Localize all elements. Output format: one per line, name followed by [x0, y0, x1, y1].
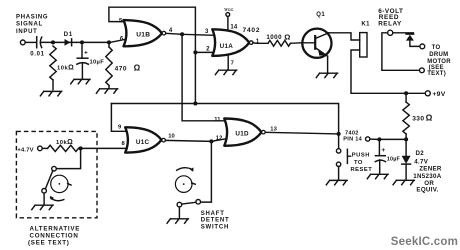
svg-text:330: 330 [412, 115, 424, 122]
capacitor C2 10uF [77, 42, 104, 78]
junction: C1/R1 node [51, 40, 55, 44]
svg-text:ZENER: ZENER [419, 166, 442, 173]
svg-text:SIGNAL: SIGNAL [16, 22, 43, 28]
svg-text:CONNECTION: CONNECTION [30, 233, 79, 240]
terminal +4.7V [17, 146, 42, 154]
junction: C3 node [377, 137, 381, 141]
junction: +9V / R4 node [404, 91, 408, 95]
pushbutton S1 (push to reset) [336, 149, 372, 173]
svg-text:13: 13 [270, 126, 277, 132]
wire: U1D pin12 node to shaft switch [201, 141, 212, 202]
ground under shaft switch [167, 219, 188, 223]
svg-text:Q1: Q1 [316, 12, 325, 18]
shaft switch contact (right) [196, 200, 201, 205]
NOR gate U1B [124, 20, 166, 46]
junction: U1B output node [180, 32, 184, 36]
resistor R4 330 [403, 93, 433, 139]
label: phasing signal input [16, 14, 48, 35]
svg-text:PUSH: PUSH [352, 153, 370, 159]
svg-text:10µF: 10µF [90, 60, 105, 66]
svg-text:1000: 1000 [266, 34, 282, 41]
wire: U1A out to R3 [253, 42, 268, 45]
reed switch contact [388, 30, 393, 35]
wire: U1B out to U1A pin 3 [166, 33, 214, 35]
terminal +9V [425, 91, 445, 98]
svg-text:3: 3 [205, 29, 209, 35]
junction: reset node [337, 132, 341, 136]
junction: R2 node [107, 40, 111, 44]
svg-text:RELAY: RELAY [378, 20, 402, 27]
wire: U1C pin 9 [111, 104, 127, 132]
svg-text:D2: D2 [416, 150, 425, 157]
NOR gate U1D [224, 119, 265, 146]
relay K1 coil [360, 21, 370, 57]
svg-text:+9V: +9V [432, 91, 445, 98]
svg-text:Ω: Ω [134, 64, 141, 73]
wire: U1B out down to U1D pin 11 [182, 34, 226, 121]
svg-text:10kΩ: 10kΩ [56, 139, 73, 146]
resistor R1 10k [50, 46, 74, 90]
NOR gate U1A [212, 29, 253, 56]
svg-text:SWITCH: SWITCH [201, 224, 229, 230]
alt switch contact (upper) [52, 166, 57, 171]
ground under D2 [393, 180, 414, 184]
wire: R3 to Q1 base [291, 42, 316, 45]
junction: D1/C2 node [80, 40, 84, 44]
wire: alt node to switch [56, 148, 80, 168]
wire: contact to D3 [393, 32, 414, 34]
svg-text:9: 9 [118, 125, 122, 131]
svg-text:14: 14 [230, 24, 238, 30]
svg-text:TEXT): TEXT) [427, 71, 446, 77]
svg-text:DETENT: DETENT [201, 218, 230, 224]
diode D3 [406, 34, 420, 46]
wire: reset rail [111, 104, 338, 134]
wire: J1 to C1 [25, 41, 36, 43]
wire: pin14 terminal to D2 node [370, 138, 406, 140]
svg-text:K1: K1 [361, 21, 370, 27]
svg-text:10kΩ: 10kΩ [57, 64, 74, 71]
ground under C3 [367, 174, 388, 178]
label: shaft detent switch [201, 211, 230, 231]
alt shaft rotor [50, 175, 71, 201]
svg-text:10: 10 [168, 134, 174, 140]
svg-text:DRUM: DRUM [429, 52, 448, 58]
NOR gate U1C [125, 127, 165, 152]
diode D1 [64, 32, 73, 46]
terminal: to drum motor (lower) [420, 68, 425, 73]
svg-text:7402: 7402 [243, 27, 261, 34]
ground under S1 [326, 180, 347, 184]
resistor R2 470 [106, 42, 141, 88]
shaft switch arm [182, 202, 196, 204]
junction: reset rail tap [193, 101, 197, 105]
resistor R5 10k (alt) [42, 139, 78, 151]
svg-text:10µF: 10µF [387, 157, 401, 163]
Vcc terminal [224, 7, 233, 30]
svg-text:+4.7V: +4.7V [17, 148, 33, 154]
wire: shaft switch to ground [178, 207, 180, 219]
svg-text:12: 12 [216, 136, 223, 142]
wire: pin 2 [195, 51, 213, 53]
shaft rotor [175, 167, 195, 192]
shaft switch contact (left) [177, 202, 182, 207]
svg-text:U1D: U1D [235, 131, 249, 138]
wire: reset node down [338, 134, 340, 149]
svg-text:8: 8 [121, 141, 125, 147]
svg-text:U1C: U1C [136, 139, 150, 146]
terminal: 7402 pin 14 [366, 137, 370, 141]
capacitor C1 [30, 37, 44, 58]
wire: feedback top (U1B pin5 net) [109, 7, 195, 103]
alt switch arm [45, 171, 52, 189]
junction: shaft switch node [209, 139, 213, 143]
ground under Q1 [316, 73, 337, 77]
svg-text:0.01: 0.01 [30, 51, 44, 57]
svg-text:470: 470 [115, 65, 128, 72]
svg-text:INPUT: INPUT [16, 29, 38, 35]
capacitor C3 10uF [375, 139, 400, 172]
wire: C1 to U1B pin 6 [41, 40, 124, 43]
resistor R3 1000 ohm [266, 32, 290, 46]
svg-text:7: 7 [231, 60, 234, 66]
dashed box: alternative connection [16, 131, 97, 217]
svg-text:PHASING: PHASING [16, 14, 48, 20]
junction: alt node [79, 146, 83, 150]
svg-text:TO: TO [354, 160, 363, 166]
svg-text:SHAFT: SHAFT [201, 211, 225, 217]
ground under R1 [40, 91, 61, 95]
svg-text:VCC: VCC [224, 7, 233, 13]
svg-text:SeekIC.com: SeekIC.com [391, 236, 458, 248]
svg-text:Ω: Ω [426, 113, 433, 123]
svg-text:D1: D1 [64, 32, 73, 38]
svg-text:11: 11 [214, 117, 221, 123]
wire: S1 to ground [338, 167, 340, 181]
svg-text:U1A: U1A [220, 43, 234, 50]
svg-text:RESET: RESET [351, 167, 373, 173]
svg-text:(SEE: (SEE [429, 65, 444, 71]
svg-text:+: + [84, 49, 88, 56]
wire: pin 7 to ground [227, 56, 229, 70]
label: alternative connection [28, 226, 80, 247]
svg-text:+: + [381, 147, 385, 154]
svg-text:7402: 7402 [345, 130, 359, 136]
label: 7402 pin 14 [343, 130, 362, 142]
junction: pin2 tap [193, 50, 197, 54]
wire: K1 to +9V rail [351, 50, 425, 93]
svg-text:2: 2 [206, 46, 210, 53]
zener diode D2 [402, 139, 411, 180]
wire: contact to motor terminal 2 [382, 33, 420, 71]
label: D2 zener [413, 150, 442, 194]
ground under C2 [71, 79, 90, 83]
wire: alt switch to ground [43, 193, 45, 205]
svg-text:4.7V: 4.7V [414, 158, 429, 165]
junction: D2/R4 node [404, 137, 408, 141]
ground under alt switch [32, 205, 53, 209]
svg-text:U1B: U1B [136, 32, 150, 39]
svg-text:(SEE TEXT): (SEE TEXT) [28, 240, 70, 247]
label: 6-volt reed relay [378, 8, 403, 28]
alt switch contact (lower) [42, 189, 47, 194]
svg-text:PIN 14: PIN 14 [343, 137, 362, 143]
wire: Q1 emitter to ground [327, 56, 329, 73]
ground under pin 7 [215, 70, 236, 74]
wire: Q1 collector to K1 [329, 33, 360, 40]
wire: U1C out to U1D pin 12 [166, 139, 226, 142]
svg-text:Ω: Ω [284, 32, 290, 41]
ground under R2 [96, 89, 117, 93]
terminal: to drum motor (upper) [420, 44, 425, 49]
svg-text:1N5230A: 1N5230A [413, 173, 441, 180]
label: to drum motor [427, 45, 451, 77]
svg-text:TO: TO [432, 45, 441, 51]
svg-text:EQUIV.: EQUIV. [416, 187, 438, 194]
wire: alt node to U1C pin 8 [79, 147, 128, 149]
transistor Q1 [302, 12, 331, 58]
input terminal J1 [20, 40, 25, 45]
wire: U1D out to reset node [265, 132, 338, 134]
